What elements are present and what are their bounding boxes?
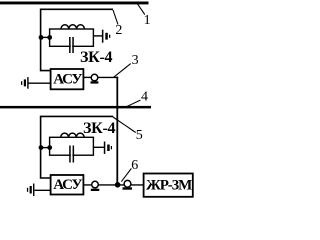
ground symbol right (bottom): bar 2 xyxy=(107,145,110,152)
connector X3: socket bar xyxy=(123,187,133,189)
svg-text:5: 5 xyxy=(136,128,143,143)
ground symbol left (top): bar 1 xyxy=(27,77,28,89)
rail line 1 (top rail) xyxy=(0,2,149,5)
svg-text:3: 3 xyxy=(132,53,139,68)
connector X2: socket bar xyxy=(91,189,100,191)
svg-text:АСУ: АСУ xyxy=(53,177,82,193)
rail line 2 (middle rail) xyxy=(0,106,151,109)
ground symbol left (bottom): bar 1 xyxy=(33,184,34,197)
link from wire A to loop (top) xyxy=(40,36,50,38)
ground symbol right (bottom): bar 3 xyxy=(111,146,112,149)
ground wire left of ASU (top) xyxy=(29,82,51,84)
ground symbol right (top): bar 1 xyxy=(102,30,104,43)
svg-text:ЗК-4: ЗК-4 xyxy=(83,120,115,137)
callout line for label 5 xyxy=(113,117,136,133)
wire from ASU (top) to connector xyxy=(83,76,91,78)
svg-text:АСУ: АСУ xyxy=(53,72,82,88)
callout line for label 6 xyxy=(121,168,131,181)
capacitor C2 plates xyxy=(69,146,71,163)
wire A2: open wire from tuning unit toward rail 2 xyxy=(41,116,114,178)
svg-text:ЖР-3М: ЖР-3М xyxy=(146,178,192,194)
svg-text:4: 4 xyxy=(141,89,148,104)
inductor L1 (top) xyxy=(61,25,84,29)
connector X3 (bottom right): circle xyxy=(124,180,131,187)
connector X2 (bottom left): circle xyxy=(92,181,99,188)
ASU box (top) xyxy=(51,69,84,89)
ASU box (bottom) xyxy=(51,175,84,195)
callout line for label 3 xyxy=(113,64,130,78)
ground wire left of ASU (bottom) xyxy=(35,189,51,191)
callout line for label 1 xyxy=(137,3,145,14)
svg-text:1: 1 xyxy=(144,13,151,28)
ground symbol left (top): bar 3 xyxy=(21,81,22,85)
ground wire right of top loop xyxy=(93,35,102,37)
capacitor C2 (bottom): gap xyxy=(71,153,73,157)
wire from ASU (bottom) to relay box xyxy=(83,184,143,186)
ground symbol right (top): bar 2 xyxy=(105,33,108,40)
ground symbol left (bottom): bar 3 xyxy=(27,188,28,192)
svg-text:2: 2 xyxy=(115,23,122,38)
ground symbol left (top): bar 2 xyxy=(24,79,26,86)
callout line for label 4 xyxy=(126,100,140,107)
wire from connector (top) to down-lead xyxy=(98,76,118,78)
callout line for label 2 xyxy=(113,10,118,25)
capacitor C1 plates xyxy=(69,37,71,53)
junction dot of down-lead and relay wire xyxy=(115,182,121,188)
ground symbol left (bottom): bar 2 xyxy=(30,186,32,194)
junction dot on loop left edge (top) xyxy=(47,35,52,40)
ground symbol right (bottom): bar 1 xyxy=(104,142,106,154)
connector X1 (top): socket bar xyxy=(91,81,99,83)
svg-text:ЗК-4: ЗК-4 xyxy=(80,49,112,66)
down-lead wire (vertical to relay) xyxy=(116,77,118,185)
junction dot on loop left edge (bottom) xyxy=(47,145,52,150)
relay box ZhR-3M xyxy=(144,174,193,197)
svg-text:6: 6 xyxy=(131,158,138,173)
capacitor C1 (top): gap xyxy=(71,44,73,48)
ground wire right of bottom loop xyxy=(93,146,104,148)
ground symbol right (top): bar 3 xyxy=(109,35,110,38)
junction dot on wire A vertical (top) xyxy=(39,35,44,40)
connector X1 (top): circle xyxy=(91,74,98,81)
inductor L2 (bottom) xyxy=(61,133,84,137)
link from wire A2 to loop (bottom) xyxy=(40,147,50,149)
tank circuit ZK-4 (bottom) loop xyxy=(50,137,94,155)
wire A: open wire from tuning unit toward rail 1 xyxy=(41,9,113,70)
junction dot on wire A2 vertical (bottom) xyxy=(39,145,44,150)
tank circuit ZK-4 (top) loop xyxy=(50,29,94,46)
